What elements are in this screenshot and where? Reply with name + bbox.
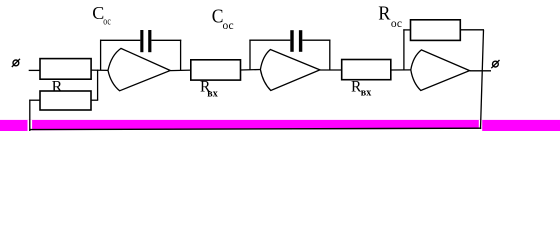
op-amp U1 — [108, 48, 170, 90]
input terminal — [12, 59, 20, 67]
capacitor C2 plates — [290, 30, 302, 52]
resistor R_vx3 — [342, 60, 391, 80]
white halo under bottom feedback rail — [29, 129, 481, 131]
wire C1 loop left vertical — [100, 40, 102, 70]
label C_oc 1 — [92, 3, 111, 27]
wire U3 out — [470, 70, 491, 72]
wire R_vx3 to op-amp U3 — [391, 69, 412, 71]
wire R_vx2 to op-amp U2 — [241, 69, 261, 72]
svg-text:ос: ос — [223, 20, 234, 32]
resistor R_vx2 — [191, 60, 241, 80]
wire C2 loop right vertical — [329, 40, 331, 71]
wire C1 loop top left — [100, 39, 140, 41]
wire feedback resistor left lead — [29, 99, 40, 101]
wire R_oc to output node — [460, 29, 484, 31]
wire feedback up right to output node — [481, 30, 484, 129]
wire U1 out — [170, 69, 191, 72]
label R_vx2 — [200, 79, 218, 100]
resistor R_oc — [411, 20, 461, 41]
label R_vx3 — [351, 79, 371, 99]
svg-text:ос: ос — [103, 16, 111, 27]
op-amp U2 — [260, 50, 320, 91]
wire feedback resistor right lead — [91, 99, 98, 101]
label C_oc 2 — [212, 6, 234, 32]
wire node A down to feedback resistor — [97, 70, 99, 101]
wire to R_oc box — [403, 29, 410, 31]
wire R1 to op-amp U1 — [91, 69, 109, 71]
wire input to R — [29, 69, 41, 71]
wire U2 out — [320, 69, 342, 71]
wire C1 loop right vertical — [180, 40, 182, 71]
wire C2 loop left vertical — [249, 40, 251, 70]
output terminal — [491, 60, 499, 68]
wire C2 loop top left — [249, 39, 290, 41]
op-amp U3 — [411, 50, 470, 91]
wire node B up — [403, 29, 405, 70]
svg-text:ос: ос — [391, 18, 402, 30]
resistor R2 (overall feedback) — [40, 91, 91, 110]
svg-text:R: R — [378, 3, 390, 25]
wire feedback down left — [29, 100, 31, 132]
label R_oc — [378, 3, 402, 31]
white halo around left feedback wire crossing bar — [28, 120, 33, 131]
wire C2 loop top right — [302, 39, 330, 41]
white halo around right feedback wire crossing bar — [479, 120, 482, 131]
wire C1 loop top right — [151, 39, 181, 41]
svg-text:вх: вх — [207, 89, 217, 100]
wire bottom feedback rail — [29, 128, 481, 129]
capacitor C1 plates — [140, 30, 151, 52]
resistor R1 — [40, 59, 91, 80]
svg-text:вх: вх — [361, 88, 371, 99]
magenta highlight bar — [0, 120, 560, 131]
